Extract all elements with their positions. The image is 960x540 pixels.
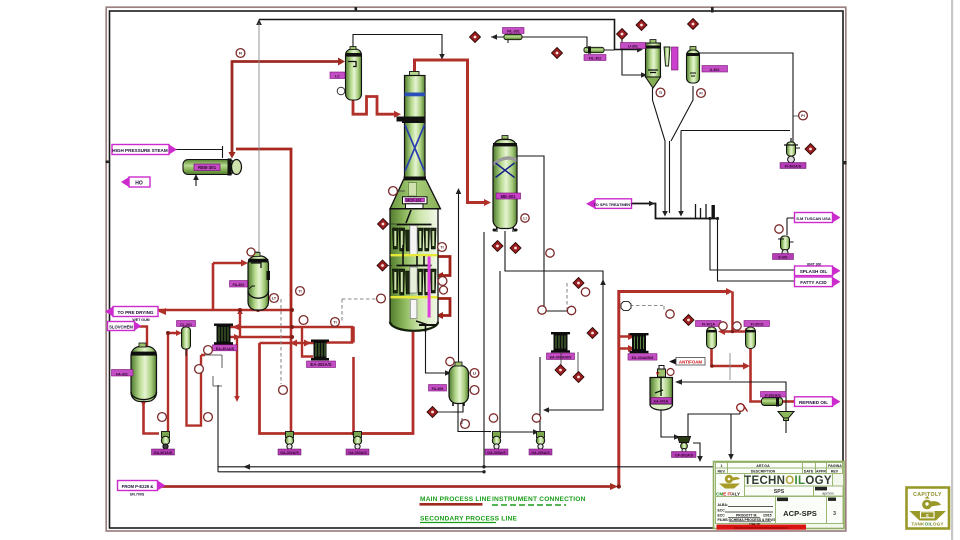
wire reboiler outlet to riser xyxy=(236,149,291,327)
svg-text:S: S xyxy=(926,513,929,518)
wire arrow F1 xyxy=(491,34,497,40)
label CL-301 strip xyxy=(177,321,196,327)
wire dashed gauge line left xyxy=(280,299,282,384)
wire to-predrying branch riser xyxy=(239,310,241,337)
label FI-301S strip xyxy=(744,321,770,327)
wire EA-302S drop to pump xyxy=(539,357,541,431)
svg-text:MCP-301: MCP-301 xyxy=(406,199,421,203)
wire column side loop 2 xyxy=(437,299,450,316)
wire arrow onto titleblock 1 xyxy=(697,456,703,462)
svg-text:FI-302A/S: FI-302A/S xyxy=(785,165,802,169)
frame tick right xyxy=(843,161,847,164)
svg-text:1: 1 xyxy=(721,464,723,468)
wire arrow down into reboiler xyxy=(228,152,235,159)
wire arrow into centrifuge xyxy=(674,434,680,440)
wire trough thick bar xyxy=(712,205,715,219)
dwg cell xyxy=(776,497,827,524)
wire dashed antifoam gauge xyxy=(630,306,664,311)
wire trough weir ticks xyxy=(696,204,707,218)
wire arrow on EA-302 return xyxy=(543,407,549,413)
wire EA-301 bottom to centrifuge xyxy=(661,409,675,437)
wire filters header drop xyxy=(731,292,734,332)
wire arrow into GA-306 xyxy=(533,429,539,435)
wire inline filter F1 piping xyxy=(491,37,615,50)
wire FA-305 vent to red header xyxy=(353,35,442,57)
wire stripper bottoms U loop xyxy=(187,348,206,426)
svg-text:LI: LI xyxy=(523,216,526,220)
wire stripper feed xyxy=(168,333,179,431)
pump GA-303 xyxy=(353,432,361,450)
wire arrow loop2 xyxy=(436,312,443,319)
wire column side loop 1 xyxy=(437,257,450,276)
refined oil pump P-301 xyxy=(762,397,783,407)
wire arrow onto titleblock 2 xyxy=(728,454,734,460)
wire FA-302 feed xyxy=(213,262,242,265)
wire EA-302 outlet down xyxy=(354,327,414,434)
svg-text:TI: TI xyxy=(333,320,336,324)
instrument circles xyxy=(158,49,808,429)
octagon instrument xyxy=(621,302,631,311)
svg-text:FILMS:: FILMS: xyxy=(718,518,729,522)
wire EA-301 vessel inlet from right xyxy=(676,382,786,412)
small connector lines for instruments xyxy=(205,116,799,424)
label S-301 strip xyxy=(773,254,794,260)
wire arrow filter join xyxy=(743,363,750,370)
wire arrow into vessel FA-305 xyxy=(338,58,345,66)
wire HP steam label line xyxy=(170,146,223,158)
instrument circle letters xyxy=(239,51,805,375)
svg-text:ART.GA: ART.GA xyxy=(756,464,770,468)
wire funnel drop xyxy=(785,420,787,433)
svg-text:LC: LC xyxy=(335,75,340,79)
svg-text:GA-303A/S: GA-303A/S xyxy=(348,451,367,455)
wire arrow into FA-306 xyxy=(445,370,451,376)
pump GA-306 xyxy=(536,432,544,450)
mini bird emblem xyxy=(719,475,740,489)
main column top section xyxy=(397,72,427,180)
svg-text:SCHEMA PROCESS & REVISED: SCHEMA PROCESS & REVISED xyxy=(729,518,781,522)
wire EA-302 arrows feed xyxy=(290,340,311,347)
wire junction dots trough xyxy=(708,217,711,220)
svg-text:TI: TI xyxy=(298,289,301,293)
inner frame xyxy=(110,11,844,528)
label FROM P-E229 xyxy=(118,481,166,497)
svg-text:REV.: REV. xyxy=(717,469,725,473)
inline filter F2 xyxy=(584,46,604,53)
wire splash oil line xyxy=(710,219,794,271)
label EA-303 strip xyxy=(645,353,647,355)
wire EA-302 bottom pass xyxy=(302,327,313,357)
wire arrows filters xyxy=(718,328,752,335)
svg-text:PAGINA: PAGINA xyxy=(828,464,842,468)
wire FI-302 drop and label line xyxy=(787,218,795,235)
label REFINED OIL xyxy=(795,397,841,407)
label S.M TUSCAN USA xyxy=(795,213,841,223)
wire filter A bottom xyxy=(712,348,745,366)
wire diamond drop 1 xyxy=(622,38,642,75)
svg-text:EA-304A/B/S: EA-304A/B/S xyxy=(632,356,654,360)
svg-text:ANTIFOAM: ANTIFOAM xyxy=(679,359,703,364)
diamond white centers xyxy=(381,23,812,414)
wire arrow into FA-302 xyxy=(241,260,248,267)
label CF-301 strip xyxy=(672,452,697,458)
svg-text:U-301: U-301 xyxy=(628,45,638,49)
sight glass xyxy=(737,404,748,412)
svg-text:INSTRUMENT CONNECTION: INSTRUMENT CONNECTION xyxy=(492,496,586,503)
wire pump GA-305 to GA-306 xyxy=(501,431,534,433)
plate HX EA-302 xyxy=(307,340,336,368)
title block row1 cells xyxy=(716,463,843,474)
wire dashed drop xyxy=(341,299,343,322)
label U-302 strip xyxy=(702,66,728,73)
right gray strip xyxy=(951,0,953,540)
wire twin header left riser xyxy=(217,385,219,472)
svg-text:FI: FI xyxy=(699,91,702,95)
svg-text:SPS: SPS xyxy=(774,489,785,495)
filter column F-301 xyxy=(664,47,678,70)
wire drop onto titleblock 2 xyxy=(730,414,732,456)
wire filter S bottom to refined pump xyxy=(751,348,762,402)
svg-text:REFINED OIL: REFINED OIL xyxy=(799,400,828,405)
svg-text:CF-301A/S: CF-301A/S xyxy=(675,454,694,458)
wire slovchem feed to FA-301 xyxy=(139,327,147,347)
svg-text:PI: PI xyxy=(801,114,804,118)
svg-text:FA-302: FA-302 xyxy=(233,283,245,287)
wire refined oil out xyxy=(783,400,794,403)
svg-text:xxxxxxxxxxxxxxxxxxxxxxxxxxxxx: xxxxxxxxxxxxxxxxxxxxxxxxxxxxx xyxy=(734,526,789,530)
ejector FI-302 xyxy=(784,138,800,163)
centrifuge CF-301 xyxy=(678,437,691,453)
label HO xyxy=(121,177,150,187)
label SPLASH OIL xyxy=(795,262,841,275)
svg-text:ECC: ECC xyxy=(718,514,726,518)
wire arrow into column xyxy=(394,111,401,118)
svg-text:S.M TUSCAN USA: S.M TUSCAN USA xyxy=(796,216,831,221)
corner logo bird emblem xyxy=(910,496,947,521)
vessel FA-301 xyxy=(131,343,157,402)
vessel FA-305 xyxy=(337,47,361,101)
wire U-301 bottoms funnel xyxy=(653,86,694,213)
svg-text:SLOVCHEM: SLOVCHEM xyxy=(109,324,133,329)
wire FA-306 bottom to pumps xyxy=(438,403,491,432)
label U-301 strip xyxy=(621,43,646,49)
wire main return header xyxy=(230,327,352,343)
svg-text:ME-301: ME-301 xyxy=(501,194,516,199)
wire right riser xyxy=(619,292,727,487)
svg-text:LI: LI xyxy=(473,371,476,375)
wire arrows into trough xyxy=(662,211,684,217)
inline filter F1 xyxy=(504,31,522,43)
label TO SPS TREATMENT xyxy=(586,199,633,209)
wire arrow into ME column xyxy=(484,199,491,206)
label FA-301 strip xyxy=(112,370,134,377)
main column cone section xyxy=(390,180,441,211)
wire trough to SPS treatment xyxy=(631,204,719,219)
svg-text:ALBA:: ALBA: xyxy=(718,503,729,507)
wire arrow up reboiler vent xyxy=(193,174,199,180)
outer frame xyxy=(106,7,846,531)
wire dashed gauge line column xyxy=(342,298,377,300)
svg-text:EA-301A: EA-301A xyxy=(654,400,669,404)
wire splash header from funnel xyxy=(681,131,790,214)
plate HX EA-303 xyxy=(547,332,575,360)
wire HX1 outlet header xyxy=(230,337,292,398)
filter FI-301S xyxy=(746,327,756,349)
wire column overhead to ME column xyxy=(415,60,489,203)
label F2 strip xyxy=(584,55,606,61)
label GA-302 strip xyxy=(278,449,301,455)
wire arrow into EA-301 xyxy=(675,379,682,385)
svg-text:P-301A/S: P-301A/S xyxy=(765,394,781,398)
pump GA-305 xyxy=(492,432,500,450)
svg-text:FIL-301: FIL-301 xyxy=(507,30,520,34)
wire arrow on header xyxy=(243,464,250,470)
label GA-306 strip xyxy=(529,449,552,455)
wire gray drop filters xyxy=(729,353,731,380)
svg-text:UN.700S: UN.700S xyxy=(130,493,145,497)
wire ME support lines xyxy=(497,228,513,232)
svg-text:FI-301S: FI-301S xyxy=(751,323,764,327)
svg-text:EA-302A/S: EA-302A/S xyxy=(310,362,331,367)
svg-text:PRODOTT M.: PRODOTT M. xyxy=(736,514,757,518)
filter FI-301A xyxy=(707,327,717,349)
label SLOVCHEM xyxy=(108,322,142,331)
svg-text:GA-305A/S: GA-305A/S xyxy=(487,451,506,455)
wire cone to FA-306 xyxy=(458,190,460,366)
wire top instrument header xyxy=(259,20,638,50)
reboiler REB-301 xyxy=(183,159,242,176)
wire column bottom tube to FA-306 xyxy=(426,329,447,373)
wire arrow into to-predrying label xyxy=(158,308,166,315)
TECHNOILOGY wordmark xyxy=(745,474,833,487)
svg-text:SPLASH OIL: SPLASH OIL xyxy=(800,269,828,274)
label F1 strip xyxy=(503,28,525,34)
title block background xyxy=(714,462,845,529)
wire arrow loop1 xyxy=(436,272,443,279)
frame tick top 1 xyxy=(355,7,358,12)
vessel FA-306 xyxy=(449,362,469,406)
red bottom bar xyxy=(717,525,807,530)
wire HP steam drop to reboiler xyxy=(231,60,234,153)
svg-text:HO: HO xyxy=(135,180,143,186)
svg-text:GA-302A/S: GA-302A/S xyxy=(280,451,299,455)
corner logo frame xyxy=(907,488,950,529)
internals row2 xyxy=(397,265,432,267)
vessel U-302 xyxy=(687,47,700,84)
label ANTIFOAM xyxy=(669,358,705,366)
wire long feed bottom header xyxy=(158,485,612,488)
wire arrow FA-301 down xyxy=(141,401,147,407)
svg-text:ECC: ECC xyxy=(718,509,726,513)
wire arrow branch up xyxy=(237,308,243,314)
svg-text:CME ITALY: CME ITALY xyxy=(716,492,740,497)
svg-text:EA-301A/S: EA-301A/S xyxy=(216,347,235,351)
wire reboiler vent xyxy=(195,175,197,186)
pump GA-301 xyxy=(161,432,169,450)
svg-text:APPR: APPR xyxy=(816,469,826,473)
wire EA-304 red feeds xyxy=(619,337,630,349)
wire filters distribution xyxy=(722,330,748,333)
vessel U-301 cone bottom xyxy=(646,40,661,89)
label FI-301A strip xyxy=(696,321,722,327)
wire arrow HX1 outlet xyxy=(234,334,241,402)
label FA-302 strip xyxy=(230,281,248,288)
wire bottom twin header lower xyxy=(218,471,484,473)
svg-text:FA-306: FA-306 xyxy=(432,387,444,391)
svg-text:FA-301: FA-301 xyxy=(116,373,128,377)
svg-text:TO SPS TREATMENT: TO SPS TREATMENT xyxy=(594,202,634,207)
wire bottoms to EA-302 xyxy=(260,342,315,345)
column ME-301 xyxy=(493,136,521,232)
label GA-305 strip xyxy=(485,449,508,455)
label FI-302 strip xyxy=(780,163,806,169)
wire FA-305 bottom zigzag into column band xyxy=(353,97,396,115)
frame tick left xyxy=(106,161,110,164)
svg-text:ACP-SPS: ACP-SPS xyxy=(783,509,817,518)
wire junction dot header xyxy=(482,470,485,473)
wire riser lower part xyxy=(290,327,293,434)
wire arrow into U-301 xyxy=(637,47,643,53)
date cell xyxy=(814,486,844,496)
label FATTY ACID xyxy=(795,277,841,287)
svg-text:U-302: U-302 xyxy=(710,68,720,72)
svg-text:CL-301: CL-301 xyxy=(180,323,192,327)
instrument diamonds xyxy=(377,19,816,418)
wire centrifuge top vent xyxy=(688,410,740,436)
SPS cell xyxy=(745,486,814,496)
internals row1 xyxy=(406,210,411,223)
svg-text:TI: TI xyxy=(440,245,443,249)
label HIGH PRESSURE STEAM xyxy=(112,145,177,155)
svg-text:SECONDARY PROCESS LINE: SECONDARY PROCESS LINE xyxy=(420,516,517,523)
wire arrow at trough inlet xyxy=(649,201,655,207)
plate HX EA-304 xyxy=(628,333,657,360)
instrument circle above agitator xyxy=(667,369,674,376)
vessel FA-302 xyxy=(248,253,270,311)
svg-text:S-301: S-301 xyxy=(778,256,788,260)
svg-text:FI-301A: FI-301A xyxy=(702,323,715,327)
column bottom outlet detail xyxy=(416,321,428,325)
wire arrow into U-301 cone xyxy=(641,72,647,78)
svg-text:EA-303A/B/S: EA-303A/B/S xyxy=(550,356,572,360)
main column body xyxy=(390,209,441,332)
svg-text:apr/xxx: apr/xxx xyxy=(822,492,834,496)
label GA-303 strip xyxy=(346,449,369,455)
wire FA-302 bottom drop xyxy=(257,305,260,310)
svg-text:TANKOILOGY: TANKOILOGY xyxy=(911,522,943,527)
funnel FU-301 xyxy=(778,412,794,421)
wire fatty acid line xyxy=(718,219,795,282)
svg-text:HIGH PRESSURE STEAM: HIGH PRESSURE STEAM xyxy=(112,148,168,153)
wire arrow feed header xyxy=(610,483,618,490)
svg-text:FROM P-E229 &: FROM P-E229 & xyxy=(122,484,154,489)
wire U-302 overhead right xyxy=(699,53,793,143)
wire centrifuge right drain xyxy=(693,443,700,459)
wire long mid vertical xyxy=(483,232,485,467)
wire bottom twin header upper xyxy=(218,466,713,468)
label FA-305 strip xyxy=(330,72,345,79)
wire arrows EA-304 xyxy=(628,333,635,352)
svg-text:REV: REV xyxy=(831,469,839,473)
wire ME overhead right xyxy=(517,156,571,311)
junction dots xyxy=(166,308,734,489)
wire arrow up at cone line xyxy=(456,188,462,194)
wire ME bottoms down xyxy=(500,231,603,431)
svg-text:FI: FI xyxy=(239,51,242,55)
wire to-predrying header xyxy=(158,263,291,310)
svg-text:DESCRIPTION: DESCRIPTION xyxy=(751,469,776,473)
title block logo cell xyxy=(716,474,745,497)
agitated vessel EA-301 xyxy=(650,366,673,411)
svg-text:DATE: DATE xyxy=(804,469,814,473)
form area left xyxy=(716,497,776,524)
rev cell xyxy=(827,497,844,524)
label P-301 strip xyxy=(761,392,787,398)
svg-text:REB-301: REB-301 xyxy=(198,165,217,170)
svg-text:TO PRE DRYING: TO PRE DRYING xyxy=(118,310,154,315)
wire arrow return header left xyxy=(232,324,240,331)
wire arrow up at header start xyxy=(256,19,262,25)
svg-text:FATTY ACID: FATTY ACID xyxy=(800,280,827,285)
wire arrow into filters header xyxy=(726,288,733,295)
wire arrow into stripper xyxy=(176,330,182,336)
svg-text:TECHNOILOGY: TECHNOILOGY xyxy=(744,475,832,487)
wire arrow trough drain up xyxy=(600,279,606,285)
sampler S-301 xyxy=(778,236,794,256)
svg-text:GA-301A/S: GA-301A/S xyxy=(154,451,173,455)
wire drop to FA-302 xyxy=(258,23,260,253)
svg-text:FIL-302: FIL-302 xyxy=(589,57,602,61)
stripper column CL-301 xyxy=(182,327,191,356)
svg-text:GA-306A/S: GA-306A/S xyxy=(531,451,550,455)
wire column bottoms line down-left xyxy=(260,331,414,434)
frame tick top 2 xyxy=(711,7,714,13)
svg-text:TI: TI xyxy=(659,91,662,95)
label GA-301 strip xyxy=(152,449,175,455)
svg-text:/2015: /2015 xyxy=(763,514,772,518)
pump GA-302 xyxy=(285,432,293,450)
plate HX EA-301L xyxy=(213,324,238,351)
label TO PRE DRYING xyxy=(105,307,158,323)
wire arrow onto red xyxy=(439,54,445,60)
wire dashed gauge ME xyxy=(566,283,568,312)
wire HP steam header horizontal xyxy=(232,60,338,63)
svg-text:MAIN PROCESS LINE: MAIN PROCESS LINE xyxy=(420,496,492,503)
svg-text:3: 3 xyxy=(833,511,836,517)
label FA-306 strip xyxy=(429,385,447,392)
wire FA-301 bottom to pump xyxy=(144,398,160,434)
